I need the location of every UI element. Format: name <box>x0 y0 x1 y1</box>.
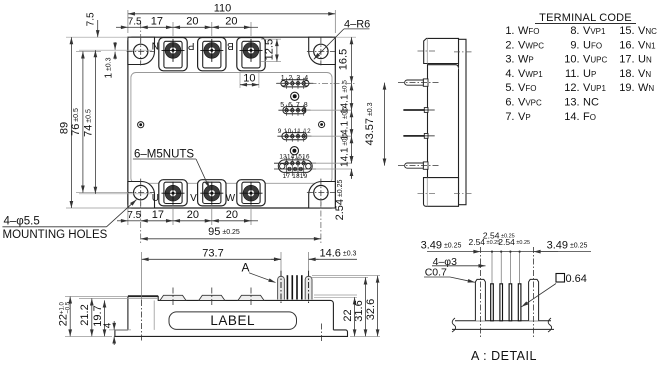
front view: case <box>128 297 334 330</box>
svg-text:B: B <box>227 40 234 51</box>
svg-text:VUP1: VUP1 <box>583 82 606 94</box>
svg-text:9 10 11 12: 9 10 11 12 <box>278 128 311 135</box>
dim 1 +-0.3 <box>114 42 116 50</box>
svg-text:VFO: VFO <box>518 82 536 94</box>
svg-text:V: V <box>190 193 197 204</box>
svg-text:A : DETAIL: A : DETAIL <box>471 349 537 363</box>
screw terminal top 1 <box>159 38 187 71</box>
svg-text:UP: UP <box>583 68 596 80</box>
svg-text:VP: VP <box>518 111 531 123</box>
svg-text:NC: NC <box>583 97 599 109</box>
detail: posts 4-phi3 <box>475 279 485 320</box>
svg-text:0.64: 0.64 <box>566 273 587 285</box>
pin group 9 10 11 12 <box>277 131 311 142</box>
terminal code column 3 <box>619 25 657 94</box>
svg-text:20: 20 <box>187 209 199 221</box>
svg-text:VUPC: VUPC <box>583 54 607 66</box>
pin group 1 2 3 4 <box>277 75 314 89</box>
svg-text:8.: 8. <box>570 25 579 37</box>
mounting hole bottom-right <box>307 179 335 207</box>
svg-text:10: 10 <box>243 72 255 84</box>
pin group 5 6 7 8 <box>278 102 310 116</box>
detail: base with break lines <box>455 320 551 322</box>
svg-text:73.7: 73.7 <box>202 248 223 260</box>
svg-text:UN: UN <box>638 54 652 66</box>
mounting hole top-right <box>307 37 335 65</box>
screw terminal top 2 <box>198 38 226 71</box>
dim 73.7 <box>142 258 281 260</box>
dim 110 <box>127 10 129 33</box>
svg-text:110: 110 <box>214 2 232 14</box>
svg-text:VWPC: VWPC <box>518 39 544 51</box>
svg-text:11.: 11. <box>565 68 579 80</box>
svg-text:9.: 9. <box>570 39 579 51</box>
left dim 7.5 vertical <box>97 20 99 37</box>
svg-text:18.: 18. <box>619 68 634 80</box>
svg-text:6.: 6. <box>505 97 514 109</box>
side view: case body <box>428 65 459 178</box>
front view: label plate <box>169 312 297 330</box>
screw terminal top 3 <box>237 38 265 71</box>
terminal code column 1 <box>505 25 544 123</box>
front view: mounting hole centerlines <box>141 252 143 300</box>
svg-text:20: 20 <box>186 16 198 28</box>
svg-text:6–M5NUTS: 6–M5NUTS <box>134 148 194 160</box>
svg-text:19.: 19. <box>619 82 634 94</box>
pin group 13-19 <box>274 157 316 177</box>
svg-text:7.5: 7.5 <box>86 12 97 26</box>
svg-text:VN: VN <box>638 68 651 80</box>
top view: module outline <box>128 37 335 208</box>
case screw mark <box>138 122 144 128</box>
svg-text:15.: 15. <box>619 25 634 37</box>
svg-text:13.: 13. <box>564 97 579 109</box>
right dim chain 16.5 / 14.1 <box>335 36 356 38</box>
mounting hole bottom-left <box>127 179 155 207</box>
svg-text:17: 17 <box>151 16 163 28</box>
svg-text:12.5: 12.5 <box>264 39 276 60</box>
detail dims 3.49 / 2.54 <box>455 251 480 253</box>
side view pin row 4 <box>398 162 439 169</box>
svg-text:UFO: UFO <box>583 39 602 51</box>
corner ear bottom-left <box>128 182 155 209</box>
svg-text:32.6: 32.6 <box>365 299 377 320</box>
svg-text:WFO: WFO <box>518 25 540 37</box>
dim row 7.5 17 20 20 (top) <box>172 22 174 36</box>
front view: baseplate <box>115 330 348 337</box>
svg-text:WN: WN <box>638 82 654 94</box>
bottom dim row 7.5 17 20 20 <box>127 208 129 225</box>
top view: inner body <box>131 73 332 184</box>
svg-text:12.: 12. <box>564 82 579 94</box>
svg-text:4–φ5.5: 4–φ5.5 <box>4 216 40 228</box>
dim 43.57 <box>384 83 386 166</box>
corner ear top-right <box>309 37 336 64</box>
svg-text:VN1: VN1 <box>638 39 656 51</box>
screw terminal bottom 1 <box>159 180 187 206</box>
svg-text:31.6: 31.6 <box>353 300 365 321</box>
front view: pin block posts <box>278 276 285 299</box>
svg-text:N: N <box>152 40 159 51</box>
left dim 76 <box>76 50 101 52</box>
svg-text:7.: 7. <box>505 111 514 123</box>
side view: ear centerlines <box>418 50 437 52</box>
svg-text:21.2: 21.2 <box>79 304 91 325</box>
svg-text:16.5: 16.5 <box>338 49 350 70</box>
left dim 89 <box>66 36 128 38</box>
front view: terminal bumps <box>160 295 186 300</box>
svg-text:U: U <box>152 193 159 204</box>
dim 14.6 <box>280 252 282 271</box>
svg-text:VNC: VNC <box>638 25 657 37</box>
svg-text:A: A <box>241 260 249 274</box>
side view pin row 2 <box>403 108 434 113</box>
side view: top ear <box>424 38 459 63</box>
dim 12.5 <box>261 38 281 40</box>
side view: bottom ear <box>424 178 459 207</box>
front right dims 22 31.6 32.6 <box>314 294 357 296</box>
svg-text:17: 17 <box>152 209 164 221</box>
svg-text:22+1.0−0.5: 22+1.0−0.5 <box>58 301 72 326</box>
svg-text:16.: 16. <box>619 39 634 51</box>
pin row 3 extension <box>307 135 352 137</box>
mounting hole top-left <box>127 37 155 65</box>
svg-text:89: 89 <box>59 122 71 134</box>
svg-text:2.: 2. <box>505 39 514 51</box>
detail: square pins <box>491 284 494 321</box>
front view: square pins <box>287 275 289 299</box>
dim 10 <box>239 72 241 89</box>
svg-text:W: W <box>226 193 236 204</box>
dim 95 <box>320 199 322 243</box>
pin area screw mark <box>290 147 298 155</box>
terminal code column 2 <box>564 25 607 123</box>
case screw mark <box>319 121 325 127</box>
svg-text:20: 20 <box>226 209 238 221</box>
svg-text:7.5: 7.5 <box>128 17 142 28</box>
svg-text:4.: 4. <box>505 68 514 80</box>
pin row 2 extension <box>306 109 352 111</box>
detail note square 0.64 <box>556 274 565 283</box>
svg-text:1 2 3 4: 1 2 3 4 <box>281 75 309 82</box>
svg-text:VVP1: VVP1 <box>583 25 606 37</box>
svg-text:3.: 3. <box>505 54 514 66</box>
corner ear bottom-right <box>309 182 336 209</box>
svg-text:VVPC: VVPC <box>518 97 542 109</box>
svg-text:5 6 7 8: 5 6 7 8 <box>280 102 308 109</box>
svg-text:17 1819: 17 1819 <box>283 173 308 180</box>
svg-text:WP: WP <box>518 54 534 66</box>
svg-text:4: 4 <box>103 322 114 328</box>
side view pin row 3 <box>403 134 434 139</box>
svg-text:1.: 1. <box>505 25 514 37</box>
front left dims 22 21.2 19.7 4 <box>65 335 112 337</box>
screw terminal bottom 3 <box>237 180 265 206</box>
svg-text:5.: 5. <box>505 82 514 94</box>
pin area screw mark <box>291 92 299 100</box>
svg-text:VWP1: VWP1 <box>518 68 543 80</box>
svg-text:MOUNTING HOLES: MOUNTING HOLES <box>3 229 108 241</box>
svg-text:13141516: 13141516 <box>279 154 310 161</box>
corner ear top-left <box>128 37 155 64</box>
svg-text:10.: 10. <box>564 54 579 66</box>
screw terminal bottom 2 <box>198 180 226 206</box>
pin row 4 extensions <box>312 162 352 164</box>
side view pin row 1 <box>398 79 439 86</box>
svg-text:P: P <box>188 40 195 51</box>
svg-text:LABEL: LABEL <box>210 313 255 328</box>
svg-text:7.5: 7.5 <box>127 210 141 221</box>
svg-text:TERMINAL CODE: TERMINAL CODE <box>539 12 632 24</box>
svg-text:14.: 14. <box>564 111 579 123</box>
side view: baseplate column <box>459 39 467 204</box>
left dim 74 <box>79 49 152 51</box>
svg-text:20: 20 <box>225 16 237 28</box>
pin row 1 centerline <box>276 82 356 84</box>
svg-text:17.: 17. <box>619 54 634 66</box>
svg-text:FO: FO <box>583 111 596 123</box>
svg-text:C0.7: C0.7 <box>425 266 447 278</box>
